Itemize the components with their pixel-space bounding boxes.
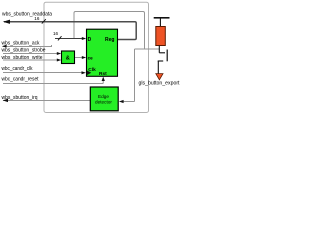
wire button junction horizontal — [135, 48, 160, 50]
wire wbs_sbutton_strobe — [3, 53, 57, 55]
wire wbs_sbutton_readdata (16-bit bus from Reg Q) — [4, 22, 136, 40]
arrowhead readdata (left) — [3, 20, 10, 24]
wire wbs_sbutton_irq — [3, 100, 90, 102]
VCC rail bar — [154, 17, 170, 19]
push button bottom contact tick — [158, 60, 164, 62]
svg-text:detector: detector — [95, 99, 112, 104]
svg-text:16: 16 — [53, 31, 59, 36]
svg-text:ce: ce — [88, 55, 94, 60]
svg-text:16: 16 — [34, 16, 40, 21]
chip boundary box — [44, 2, 149, 112]
port arrow gls_button_export — [156, 74, 163, 80]
wire resistor to button — [158, 46, 160, 53]
svg-text:wbs_sbutton_strobe: wbs_sbutton_strobe — [2, 48, 46, 54]
arrowhead ce — [82, 56, 86, 59]
wire D input (16) — [55, 38, 82, 40]
wire gls_button net top loop (button to D input) — [74, 12, 145, 50]
wire button to port — [157, 61, 159, 74]
arrowhead into edge detector — [119, 100, 124, 103]
svg-text:wbc_candr_clk: wbc_candr_clk — [2, 66, 33, 72]
clock pin triangle — [87, 71, 91, 76]
bus slash readdata — [42, 19, 46, 23]
svg-text:gls_button_export: gls_button_export — [139, 81, 181, 87]
push button S1: top contact tick — [159, 52, 165, 54]
arrowhead irq (left) — [3, 99, 8, 102]
push button actuator bar — [166, 50, 168, 62]
VCC stub — [159, 18, 161, 27]
wire wbc_candr_reset — [3, 80, 103, 84]
wire wbc_candr_clk — [3, 72, 82, 74]
svg-text:wbs_sbutton_ack: wbs_sbutton_ack — [2, 41, 40, 47]
arrowhead strobe into AND — [57, 52, 61, 55]
wire wbs_sbutton_ack — [3, 45, 52, 47]
svg-text:&: & — [66, 55, 70, 61]
edge detector U3 — [90, 87, 118, 111]
register U2 — [87, 29, 118, 76]
arrowhead write into AND — [57, 59, 61, 62]
arrowhead reset (up into Rst) — [102, 77, 105, 81]
svg-text:wbs_sbutton_readdata: wbs_sbutton_readdata — [2, 12, 52, 18]
svg-text:D: D — [88, 37, 92, 43]
svg-text:Reg: Reg — [105, 37, 114, 43]
svg-text:wbc_candr_reset: wbc_candr_reset — [2, 77, 39, 83]
AND gate U1 — [62, 51, 75, 64]
svg-text:Rst: Rst — [99, 71, 107, 77]
arrowhead clk — [82, 71, 86, 74]
wire wbs_sbutton_write — [3, 59, 57, 61]
wire AND output to ce — [75, 57, 82, 59]
arrowhead D — [82, 37, 86, 40]
resistor R1 (pull-up) — [156, 27, 166, 46]
wire to edge detector (vertical drop) — [123, 49, 135, 102]
bus slash D — [58, 36, 62, 40]
svg-text:Edge: Edge — [98, 94, 109, 99]
arrowhead ack (left) — [2, 45, 7, 48]
